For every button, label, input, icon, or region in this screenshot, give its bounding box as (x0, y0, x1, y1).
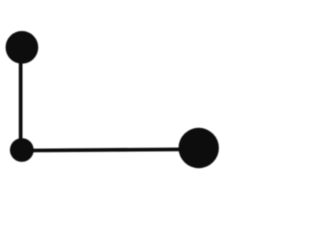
node: top-left disc (6, 31, 39, 64)
wire: horizontal arm from joint to right disc (22, 147, 199, 152)
node: joint disc (10, 138, 34, 162)
node: right disc (179, 128, 219, 168)
wire: vertical stem from top disc to joint (19, 55, 23, 145)
